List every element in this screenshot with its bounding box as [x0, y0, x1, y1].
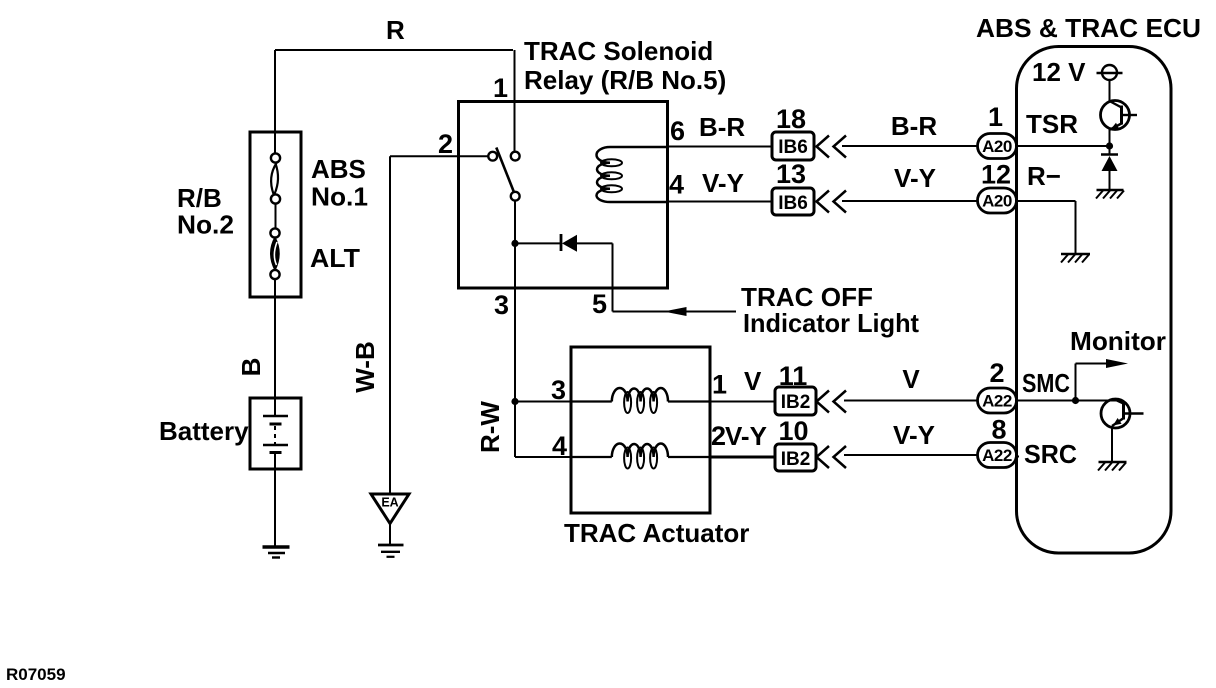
power symbol 12V [1102, 65, 1117, 80]
svg-text:6: 6 [670, 116, 685, 146]
relay coil L1 [610, 146, 667, 149]
junction dot SMC [1072, 397, 1079, 404]
wire fuse to battery [274, 279, 276, 416]
svg-text:V-Y: V-Y [702, 168, 744, 198]
svg-text:Monitor: Monitor [1070, 326, 1166, 356]
svg-text:V-Y: V-Y [893, 420, 935, 450]
connector A22 pin2 [978, 388, 1017, 413]
wire diode to pin5 [576, 243, 613, 311]
svg-text:A22: A22 [982, 446, 1012, 465]
wire row1 to A20 [842, 145, 978, 147]
fuse ABS No.1 bottom circle [271, 194, 280, 203]
switch blade [496, 148, 514, 194]
wire actuator pin3 [515, 401, 571, 403]
junction dot TSR [1106, 142, 1113, 149]
svg-text:1: 1 [988, 102, 1003, 132]
svg-text:TRAC Solenoid: TRAC Solenoid [524, 36, 713, 66]
transistor Q1 [1101, 101, 1130, 130]
diode D1 triangle [562, 235, 577, 252]
fuse ALT element [271, 238, 279, 271]
label R/B No.2 [177, 183, 234, 240]
svg-text:8: 8 [991, 415, 1006, 445]
wire diode to ground [1109, 171, 1111, 190]
svg-text:2: 2 [711, 421, 726, 451]
diode D2 triangle [1102, 156, 1118, 171]
svg-text:A22: A22 [982, 392, 1012, 411]
wire R- row [1016, 201, 1076, 254]
monitor arrow [1076, 364, 1113, 401]
transistor Q2 monitor [1101, 399, 1130, 428]
svg-text:4: 4 [669, 170, 684, 200]
wire transistor to diode [1109, 130, 1111, 155]
svg-text:R07059: R07059 [6, 665, 66, 684]
connector chevrons row3 [817, 391, 847, 413]
wire battery to ground [274, 453, 276, 547]
wire SRC stub [1016, 456, 1019, 458]
svg-text:No.2: No.2 [177, 210, 234, 240]
wire W-B vertical [389, 156, 391, 494]
svg-text:V-Y: V-Y [725, 421, 767, 451]
svg-text:13: 13 [776, 159, 806, 189]
junction block IB2 row3 [775, 387, 816, 415]
junction dot R-W [511, 398, 518, 405]
wire pin4 to IB6 [668, 201, 773, 203]
svg-text:IB2: IB2 [781, 449, 811, 470]
svg-text:12: 12 [981, 160, 1011, 190]
junction block IB2 row4 [775, 444, 816, 471]
switch contact circle pin2 (pivot) [488, 152, 497, 161]
svg-text:4: 4 [552, 431, 567, 461]
svg-text:1: 1 [493, 73, 508, 103]
fuse ALT bottom circle [270, 270, 279, 279]
fuse ABS No.1 top circle [271, 153, 280, 162]
svg-text:R: R [386, 15, 405, 45]
wire SMC row [1017, 400, 1119, 402]
svg-text:ABS & TRAC ECU: ABS & TRAC ECU [976, 13, 1201, 43]
switch contact circle pin1 [511, 152, 520, 161]
connector chevrons row1 [817, 136, 847, 158]
actuator coil SRC winding [571, 456, 612, 458]
svg-text:B-R: B-R [891, 111, 937, 141]
svg-text:No.1: No.1 [311, 182, 368, 212]
svg-text:V: V [744, 366, 762, 396]
junction block IB6 row1 [772, 132, 814, 160]
svg-text:IB6: IB6 [778, 137, 808, 158]
wire pin5 indicator line [613, 311, 737, 313]
wire EA to ground [389, 524, 391, 546]
arrowhead indicator (points left) [664, 307, 687, 316]
svg-text:2: 2 [989, 358, 1004, 388]
connector chevrons row4 [817, 446, 847, 468]
svg-text:2: 2 [438, 129, 453, 159]
connector chevrons row2 [817, 191, 847, 213]
svg-text:Indicator Light: Indicator Light [743, 308, 919, 338]
wire between fuses [275, 204, 277, 230]
connector A20 pin12 [978, 188, 1017, 213]
svg-text:A20: A20 [982, 137, 1012, 156]
diode D2 cathode bar [1101, 153, 1118, 156]
svg-text:SRC: SRC [1024, 439, 1077, 469]
ground R- [1061, 253, 1090, 255]
wire row4 to A22 [844, 454, 978, 456]
wire pin6 to IB6 [668, 146, 773, 148]
svg-text:TSR: TSR [1026, 109, 1078, 139]
svg-text:ABS: ABS [311, 154, 366, 184]
svg-text:TRAC Actuator: TRAC Actuator [564, 518, 749, 548]
wire TSR row [1016, 145, 1110, 147]
svg-text:Battery: Battery [159, 416, 249, 446]
svg-text:ALT: ALT [310, 243, 360, 273]
ground battery [263, 545, 290, 548]
ground EA [378, 544, 404, 547]
svg-text:EA: EA [381, 496, 398, 510]
svg-text:5: 5 [592, 289, 607, 319]
ground monitor [1099, 461, 1127, 463]
svg-text:12 V: 12 V [1032, 57, 1086, 87]
svg-text:3: 3 [494, 290, 509, 320]
svg-text:IB2: IB2 [781, 392, 811, 413]
battery box [250, 398, 301, 469]
svg-text:V-Y: V-Y [894, 163, 936, 193]
wire Q2 emitter to ground [1111, 426, 1113, 462]
wire row3 to A22 [844, 400, 978, 402]
actuator box TRAC Actuator [571, 347, 710, 513]
wire pin1 drop [514, 50, 516, 152]
battery cell plates [263, 415, 288, 417]
wire battery feed vertical (R) [274, 50, 276, 154]
wire actuator pin1 to IB2 [710, 401, 775, 403]
svg-text:R/B: R/B [177, 183, 222, 213]
wire 12V to transistor [1109, 80, 1111, 101]
ground TSR diode [1097, 189, 1124, 191]
wire pin 3 vertical [514, 201, 516, 402]
fuse box R/B No.2 [250, 132, 301, 297]
junction block IB6 row2 [772, 188, 814, 215]
svg-text:B: B [236, 358, 266, 377]
wire diode branch [515, 242, 561, 244]
svg-text:18: 18 [776, 104, 806, 134]
label ABS No.1 [311, 154, 368, 212]
ground point EA triangle [371, 494, 409, 524]
wire R-W branch [515, 402, 571, 458]
label TRAC Solenoid Relay (R/B No.5) [524, 36, 726, 95]
actuator coil SMC winding [571, 400, 612, 402]
junction dot diode tap [511, 240, 518, 247]
fuse ABS No.1 element [271, 163, 278, 194]
relay box (TRAC Solenoid Relay) [459, 102, 668, 289]
svg-text:W-B: W-B [350, 341, 380, 392]
svg-text:Relay (R/B No.5): Relay (R/B No.5) [524, 65, 726, 95]
svg-text:R-W: R-W [475, 401, 505, 453]
svg-text:R−: R− [1027, 161, 1061, 191]
svg-text:B-R: B-R [699, 112, 745, 142]
svg-text:A20: A20 [982, 192, 1012, 211]
ECU box ABS & TRAC ECU [1017, 47, 1172, 554]
fuse ALT top circle [270, 228, 279, 237]
connector A20 pin1 [978, 134, 1017, 159]
wire pin 2 horizontal [390, 155, 488, 157]
svg-text:11: 11 [779, 361, 808, 391]
svg-text:IB6: IB6 [778, 193, 808, 214]
switch lower contact circle [511, 192, 520, 201]
svg-text:V: V [902, 364, 920, 394]
diode D1 cathode bar [560, 234, 563, 251]
wire R horizontal top [275, 49, 513, 51]
wire row2 to A20 [842, 200, 978, 202]
connector A22 pin8 [978, 443, 1017, 468]
label TRAC OFF Indicator Light [741, 282, 919, 338]
svg-text:1: 1 [712, 370, 727, 400]
svg-text:10: 10 [778, 416, 808, 446]
svg-text:SMC: SMC [1022, 368, 1070, 398]
wire actuator pin2 to IB2 (thick) [710, 456, 775, 459]
svg-text:3: 3 [551, 375, 566, 405]
